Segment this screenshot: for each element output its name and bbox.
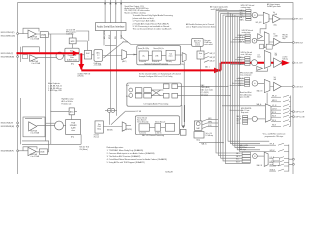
svg-text:LOR OUT: LOR OUT <box>295 86 303 88</box>
Audio Serial Bus Interface U1 <box>96 23 127 31</box>
block R1 <box>135 93 142 98</box>
beep gen block <box>95 121 103 133</box>
red wire H1 <box>17 52 80 54</box>
svg-text:0 to 47.5dB: 0 to 47.5dB <box>31 38 41 41</box>
text mono duplicate <box>48 82 63 92</box>
svg-text:MIC3L/IN3L(P): MIC3L/IN3L(P) <box>1 123 14 125</box>
svg-text:HPF program-: HPF program- <box>66 32 77 34</box>
G5 mux tall <box>265 104 271 122</box>
G4 note <box>240 71 253 76</box>
svg-text:(D-A/B mode): (D-A/B mode) <box>67 58 78 61</box>
G1 mixer <box>252 12 257 17</box>
probe circles <box>107 108 115 112</box>
G4 mixer <box>252 81 258 87</box>
pin IN4 <box>17 150 19 152</box>
svg-text:Example Configure: 48k fs out,: Example Configure: 48k fs out, LR ch Con… <box>139 75 172 78</box>
block L1 <box>135 88 142 93</box>
chip boundary <box>18 3 293 174</box>
svg-text:wire or Right/Contact Directio: wire or Right/Contact Direction Select <box>186 25 216 28</box>
svg-text:3. The Built-in AGC Function (: 3. The Built-in AGC Function (SLAA002) <box>107 155 141 158</box>
svg-text:7-8x: 7-8x <box>169 53 172 55</box>
AGC3 block <box>69 108 74 115</box>
mixer circle spk <box>55 121 64 130</box>
wire rails to mixer <box>46 122 55 124</box>
G3 amp <box>274 58 283 68</box>
ADC decimation filter block <box>65 48 79 65</box>
svg-text:8-IN-28: 8-IN-28 <box>165 172 173 174</box>
text high adc <box>62 98 74 106</box>
svg-text:Normal LR Channel Processing: Normal LR Channel Processing <box>144 62 168 65</box>
red wire H3 <box>221 62 283 64</box>
svg-text:IN1_L: IN1_L <box>236 159 240 161</box>
wire sum to mux <box>103 55 122 57</box>
input pin labels IN3 <box>1 123 15 128</box>
gain select box 4 <box>39 149 47 154</box>
G3 mixer <box>251 60 257 66</box>
svg-text:Gain: Gain <box>199 53 202 55</box>
label MicPGA2 <box>32 60 42 65</box>
svg-text:HP/LOM MIC3L: HP/LOM MIC3L <box>241 108 252 110</box>
svg-text:IN2_M: IN2_M <box>272 120 276 122</box>
svg-text:IN_B: IN_B <box>257 56 260 58</box>
bus vertical lines <box>228 12 269 152</box>
junction MAL_A / bus <box>223 142 224 143</box>
svg-text:Full AP gain mode: Full AP gain mode <box>267 5 281 8</box>
svg-text:(2Fs/16): (2Fs/16) <box>78 75 84 77</box>
pin HPLOUT <box>293 18 295 20</box>
wire amp3 to mixer <box>37 125 55 127</box>
G5 row boxes <box>243 116 248 125</box>
svg-text:LOL: LOL <box>257 54 260 56</box>
wire <box>19 150 29 152</box>
svg-text:0/6dB: 0/6dB <box>41 34 45 36</box>
svg-text:Vol, 7dB: Vol, 7dB <box>282 36 287 38</box>
red note under H2 left <box>78 72 92 77</box>
svg-text:(HPL): (HPL) <box>208 118 212 120</box>
dac switches <box>202 120 207 129</box>
svg-text:To enable Record-Only Digital: To enable Record-Only Digital Audio Proc… <box>133 14 173 17</box>
beep box sub text <box>94 135 100 139</box>
G5 switch rows <box>271 95 291 126</box>
wire HPF top <box>72 34 74 38</box>
DAC block <box>194 121 202 130</box>
svg-text:Clk (Mono): Clk (Mono) <box>79 149 88 151</box>
G3 note <box>241 51 252 56</box>
G3 pre-pin note <box>282 57 288 61</box>
svg-text:(Fs): (Fs) <box>71 137 74 139</box>
big diagonal switch <box>111 112 125 125</box>
wire mixer to PGA <box>63 125 65 127</box>
svg-text:(HPR): (HPR) <box>208 121 212 123</box>
G4 amp <box>274 82 282 91</box>
red arrowhead 2 <box>78 64 84 70</box>
serial bus down wires <box>104 31 121 116</box>
op-amp MicPGA3 <box>29 122 37 131</box>
HPF block <box>69 38 76 44</box>
wire DAC_R to bus <box>178 95 231 97</box>
svg-text:Master and Slave clocking: Master and Slave clocking <box>125 11 146 14</box>
text note: serial formats <box>125 5 150 14</box>
input pin labels IN2L <box>1 53 15 58</box>
G1 amp <box>273 15 281 23</box>
pin MONO_M <box>293 163 295 165</box>
op-amp MicPGA L1 <box>28 30 36 38</box>
svg-text:HPR OUT: HPR OUT <box>295 42 303 44</box>
svg-text:HPL_M: HPL_M <box>272 96 276 98</box>
wire <box>79 54 84 56</box>
feedback wire <box>25 117 42 119</box>
arrowhead mux out <box>134 54 137 56</box>
rail down A <box>45 34 47 141</box>
svg-text:LOL/Vol: LOL/Vol <box>282 57 288 59</box>
dac switch wires to bus <box>207 120 218 127</box>
G2 wires <box>257 41 293 43</box>
svg-text:(2s keep): (2s keep) <box>201 94 208 96</box>
note right of volume <box>204 40 213 46</box>
stereo 3D block <box>135 116 179 137</box>
mixer circle ADC L <box>56 52 63 59</box>
svg-text:DAC L/R Channel Processing: DAC L/R Channel Processing <box>142 134 164 137</box>
rail stub <box>20 98 22 144</box>
svg-text:HP/LOR Vol and: HP/LOR Vol and <box>242 30 253 32</box>
app notes list <box>107 146 168 164</box>
svg-text:2. Enable ADC Digital Record P: 2. Enable ADC Digital Record Path (RACF) <box>133 22 170 25</box>
G3 mux <box>264 51 271 69</box>
mode block <box>180 129 186 135</box>
wire mixer to decim <box>63 55 65 57</box>
svg-text:Fs/2x/4x rate: Fs/2x/4x rate <box>62 102 72 105</box>
2Fs mux <box>182 53 186 62</box>
wire return B <box>22 143 81 145</box>
record switch labels <box>210 52 216 63</box>
G3 small amp <box>257 67 263 71</box>
G5 stub wire 2 <box>230 109 242 111</box>
svg-text:IN1_R: IN1_R <box>236 161 240 163</box>
svg-text:MIC3R/IN3R(M): MIC3R/IN3R(M) <box>1 126 15 128</box>
svg-text:(PB/DR): (PB/DR) <box>126 129 132 131</box>
wire beep to mux <box>103 126 122 128</box>
G5 wire <box>248 118 253 120</box>
pin IN3R <box>17 125 19 127</box>
G5 MAL_A wire <box>222 105 265 107</box>
wire HPF to decim <box>72 44 74 48</box>
G5 note2 <box>241 108 252 114</box>
G5 wire2 <box>257 118 265 120</box>
wire to 2Fs mux <box>175 54 182 56</box>
routing wire <box>105 44 116 46</box>
input pin labels IN4 <box>1 150 14 152</box>
pin LEFT_LOM <box>293 116 295 118</box>
label MicPGA <box>31 36 41 41</box>
PGA SPK block <box>66 120 81 139</box>
G1 mux <box>263 12 269 23</box>
G4 vol label <box>274 77 277 81</box>
wire mux out <box>126 125 131 127</box>
AGC block A <box>84 50 91 59</box>
G3 vol label <box>275 53 278 57</box>
G2 amp1 <box>258 34 263 40</box>
G6 note2 <box>239 144 248 151</box>
svg-text:Key: Key <box>98 124 101 126</box>
feedback loop wire <box>23 147 37 151</box>
mic pga box3 <box>23 117 45 137</box>
G3 mid boxes <box>260 44 264 49</box>
wire rail to AGC3 <box>51 110 69 112</box>
svg-text:(shown with thin red line):: (shown with thin red line): <box>133 17 155 20</box>
G6 switch rows <box>269 143 289 171</box>
feedback loop wire <box>22 47 39 53</box>
svg-text:This can be passed back to cod: This can be passed back to codec via AD … <box>133 28 172 31</box>
svg-text:Volume: Volume <box>195 43 200 45</box>
svg-text:Beep: Beep <box>197 140 201 142</box>
svg-text:LOL OUT: LOL OUT <box>295 63 302 65</box>
G2 note <box>242 30 253 34</box>
svg-text:3. 3-D Processing is not avail: 3. 3-D Processing is not available in Re… <box>133 25 170 28</box>
svg-text:HPL OUT: HPL OUT <box>295 19 302 21</box>
svg-text:HPR_M: HPR_M <box>272 100 277 102</box>
wire AGC3 down <box>71 115 73 120</box>
red arrowhead 1 <box>73 51 79 56</box>
interp mux <box>122 122 126 131</box>
svg-text:+: + <box>88 55 89 57</box>
G1 vol label <box>273 12 277 16</box>
svg-text:IN3_L: IN3_L <box>237 121 241 123</box>
vertical bus pair <box>182 105 185 126</box>
G2 amp2 <box>274 38 281 46</box>
svg-text:Vol +/- 50: Vol +/- 50 <box>206 133 213 135</box>
pin IN2L <box>17 52 19 54</box>
G2 vol label <box>273 34 277 38</box>
chip boundary frame group <box>18 3 293 174</box>
G1 wires out <box>269 18 292 20</box>
svg-text:Relevant App notes:: Relevant App notes: <box>107 146 124 149</box>
svg-text:L ch: L ch <box>126 85 129 87</box>
pin LOLOUT <box>293 62 295 64</box>
text note: output stage right <box>267 3 281 8</box>
svg-text:5.1 Digital Audio Processing: 5.1 Digital Audio Processing <box>143 103 168 106</box>
svg-text:routing stage: routing stage <box>241 6 251 9</box>
input pin labels IN1L <box>1 32 16 37</box>
red arrowheads group <box>73 51 290 73</box>
block L2 <box>144 88 152 93</box>
svg-text:LOR_M: LOR_M <box>272 109 276 111</box>
routing diagonal <box>104 42 124 58</box>
pin MONO_P <box>293 158 295 160</box>
G6 wire <box>257 155 264 157</box>
wire down 2Fs <box>183 62 185 122</box>
red arrowhead 3 <box>214 68 221 74</box>
svg-text:IN1_M: IN1_M <box>272 116 276 118</box>
text note: HP vol <box>241 5 254 9</box>
G5 mixer <box>252 116 257 121</box>
G5 collector <box>290 96 292 127</box>
wire return A <box>22 141 49 152</box>
pin IN1L <box>17 33 19 35</box>
label MicPGA4 <box>31 153 41 158</box>
G5 note <box>240 91 252 98</box>
G3 loop wire <box>256 68 268 71</box>
G6 mux <box>264 152 268 166</box>
wire LFT GN <box>125 110 135 112</box>
record bypass wire <box>121 37 192 45</box>
svg-text:mono: mono <box>169 56 173 58</box>
wire <box>19 33 29 35</box>
svg-text:MOM_M: MOM_M <box>270 170 275 172</box>
G4 mux down wire <box>266 93 268 104</box>
dac switch labels <box>208 118 212 127</box>
pin IN2R <box>17 56 19 58</box>
wire DAC_L to bus <box>178 85 229 87</box>
svg-text:IN3_R: IN3_R <box>237 123 241 125</box>
svg-text:IN3_M: IN3_M <box>272 125 276 127</box>
wire <box>92 54 94 56</box>
svg-text:HP/LOR: HP/LOR <box>282 35 287 37</box>
G3 labels mid <box>257 54 260 58</box>
svg-text:0 to 47.5dB: 0 to 47.5dB <box>31 155 41 158</box>
svg-text:MIC2R/IN2R(M): MIC2R/IN2R(M) <box>1 56 15 58</box>
top serial pins <box>105 0 121 23</box>
svg-text:MO_M: MO_M <box>272 112 276 114</box>
bus corner lines top-to-bottom <box>216 10 251 163</box>
svg-text:Vol 1-6dB analog: Vol 1-6dB analog <box>240 94 252 96</box>
svg-text:MIC1LM/IN1L(M): MIC1LM/IN1L(M) <box>1 35 16 37</box>
pin HPROUT <box>293 42 295 44</box>
G1 loop wire <box>260 24 266 34</box>
feedback loop wire <box>23 28 39 33</box>
G1 wires <box>251 14 252 16</box>
svg-text:MIC1LP/IN1L(P): MIC1LP/IN1L(P) <box>1 32 15 34</box>
svg-text:Audio Serial Bus Interface: Audio Serial Bus Interface <box>97 26 125 29</box>
text note: flexible routing <box>186 23 216 28</box>
HPF note text <box>66 29 77 36</box>
svg-text:0/6dB: 0/6dB <box>40 152 44 154</box>
svg-text:MIC3L Vol+: MIC3L Vol+ <box>239 147 247 149</box>
svg-text:Click: Click <box>97 126 101 128</box>
red wire H2 <box>81 69 220 71</box>
cross wires <box>151 90 163 96</box>
svg-text:(MODE): (MODE) <box>107 130 113 132</box>
svg-text:class: class <box>71 130 75 132</box>
label MicPGA3 <box>31 129 41 134</box>
red arrowhead 4 <box>282 60 290 66</box>
svg-text:2. Common Mode inputs in our A: 2. Common Mode inputs in our Audio Codec… <box>107 152 155 155</box>
arrowhead down <box>182 126 186 129</box>
svg-text:3. MIX Page, LRB: 3. MIX Page, LRB <box>48 90 62 92</box>
svg-text:HPR_M: HPR_M <box>270 150 275 152</box>
wire ADC_L <box>36 33 72 35</box>
MAL_A wire <box>199 142 223 144</box>
red wire V2 <box>220 63 222 71</box>
op-amp MicPGA4 <box>28 147 36 155</box>
wire PGA out down <box>80 135 82 145</box>
svg-text:Beep: Beep <box>97 129 101 131</box>
ref note <box>79 147 90 151</box>
wire ADC_R <box>36 151 49 153</box>
op-amp MicPGA L2 <box>30 55 37 62</box>
text note: record path steps <box>133 14 173 31</box>
rail stub <box>20 47 22 62</box>
G6 collector <box>288 145 290 172</box>
wire volume to gain <box>199 46 201 51</box>
top pin arrowheads <box>104 2 122 4</box>
svg-text:0 to 47.5dB: 0 to 47.5dB <box>31 131 41 134</box>
svg-text:6dB: 6dB <box>274 79 277 81</box>
svg-text:LOL_M: LOL_M <box>272 105 276 107</box>
ADC record mux <box>122 50 127 60</box>
svg-text:4. Octvd-Band Noise Measuremen: 4. Octvd-Band Noise Measurement Issues f… <box>107 158 168 161</box>
svg-text:LFT GN: LFT GN <box>136 111 141 113</box>
svg-text:+/-6dB: +/-6dB <box>273 36 277 38</box>
G2 mux <box>264 32 269 48</box>
svg-text:6dB: 6dB <box>275 55 278 57</box>
block L3 <box>163 84 169 89</box>
svg-text:(Fs): (Fs) <box>71 64 74 66</box>
block R4 <box>172 93 178 98</box>
svg-text:8% 50%: 8% 50% <box>94 135 100 137</box>
svg-text:1. Power Down Both DACs: 1. Power Down Both DACs <box>133 20 156 23</box>
G6 note <box>263 133 286 138</box>
wire AGC3 right <box>74 110 77 112</box>
pin LOROUT <box>293 86 295 88</box>
note DAC power <box>201 84 213 97</box>
wire mux out <box>127 54 137 56</box>
svg-text:Fine gain: Fine gain <box>204 40 210 42</box>
text note: output paths <box>210 5 228 10</box>
volume control block <box>192 38 204 46</box>
svg-text:5. Using AIC3x with TDM Suppor: 5. Using AIC3x with TDM Support (SLAA021… <box>107 161 145 164</box>
G2 pre-pin note <box>282 35 287 41</box>
red wire V1 <box>80 53 82 69</box>
svg-text:LEFT_LOM: LEFT_LOM <box>296 117 305 119</box>
G2 mixer <box>252 38 257 43</box>
vertical from probe <box>108 112 110 124</box>
G6 mixer <box>253 154 258 159</box>
attenuation box <box>23 55 28 59</box>
svg-text:HPL_M: HPL_M <box>270 144 274 146</box>
junction dots G4 stubs <box>230 78 238 86</box>
svg-text:Σ 2: Σ 2 <box>97 55 99 57</box>
svg-text:IN1_L: IN1_L <box>240 12 244 14</box>
sum node R <box>129 94 133 98</box>
svg-text:(LOL): (LOL) <box>208 125 212 127</box>
rail down B <box>50 34 52 144</box>
svg-text:0 to 47.5dB: 0 to 47.5dB <box>32 62 42 65</box>
svg-text:(26L): (26L) <box>274 24 278 26</box>
junction rail B / AGC <box>50 111 51 112</box>
pin IN3L <box>17 122 19 124</box>
block R2 <box>144 93 152 98</box>
record switches <box>204 53 209 63</box>
svg-text:MIC2L/IN2L(P): MIC2L/IN2L(P) <box>1 53 14 55</box>
svg-text:L8+: L8+ <box>142 55 145 57</box>
svg-text:LEFT_LOP: LEFT_LOP <box>296 112 305 114</box>
bus stubs into groups <box>230 35 245 85</box>
red note under H2 mid <box>139 73 182 78</box>
svg-text:MIC4R/IN4R(P): MIC4R/IN4R(P) <box>1 150 14 152</box>
vol block lower <box>194 132 204 138</box>
G4 wires <box>258 83 293 86</box>
svg-text:(2Fs): (2Fs) <box>181 64 185 66</box>
block R3 <box>163 93 169 98</box>
serial pin labels <box>103 29 123 39</box>
block L4 <box>172 84 178 89</box>
junction dots <box>215 86 230 96</box>
wire through probes <box>105 109 117 111</box>
G4 mux <box>264 80 270 93</box>
gain block <box>197 51 204 59</box>
G1 box rows <box>246 10 251 21</box>
gain select box <box>40 32 48 38</box>
